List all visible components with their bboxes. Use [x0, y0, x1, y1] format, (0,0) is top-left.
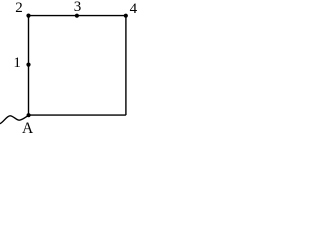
wire bottom edge of square loop — [29, 114, 126, 116]
wire right edge of square loop — [125, 16, 127, 116]
node 4 (top-right corner dot) — [124, 14, 128, 18]
node A (bottom-left corner dot) — [27, 113, 31, 117]
node 1 (left edge dot) — [26, 63, 30, 67]
svg-text:3: 3 — [74, 0, 82, 15]
wire left edge of square loop — [28, 16, 30, 116]
node 3 (top edge dot) — [75, 14, 79, 18]
node 2 (top-left corner dot) — [26, 14, 30, 18]
svg-text:1: 1 — [13, 55, 21, 71]
wire top edge of square loop — [29, 15, 126, 17]
svg-text:2: 2 — [15, 0, 22, 16]
svg-text:4: 4 — [130, 1, 138, 17]
wire squiggly lead into node A — [0, 115, 29, 123]
svg-text:A: A — [22, 120, 34, 137]
